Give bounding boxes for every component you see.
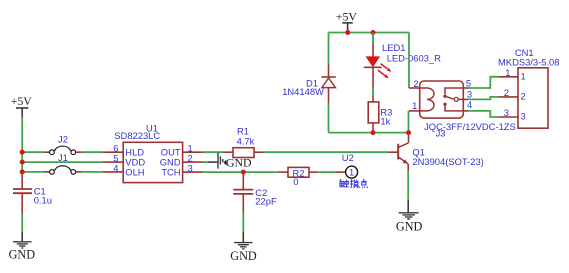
svg-text:0: 0	[293, 176, 298, 187]
node: R3 bottom junction	[371, 130, 376, 135]
svg-text:0.1u: 0.1u	[34, 194, 52, 205]
svg-text:4: 4	[113, 162, 118, 173]
IC U1 SD8223LC	[113, 122, 192, 182]
wire: R2 to U2	[309, 171, 318, 173]
svg-text:1: 1	[505, 67, 510, 78]
relay switch	[445, 88, 463, 94]
LED LED1	[364, 33, 392, 88]
svg-text:22pF: 22pF	[255, 195, 277, 206]
wire: LED to R3	[372, 88, 374, 95]
svg-text:GND: GND	[230, 249, 257, 263]
wire: top rail	[329, 32, 410, 34]
wire: bottom loop horizontal	[329, 132, 409, 134]
svg-text:4.7k: 4.7k	[237, 135, 255, 146]
svg-text:+5V: +5V	[11, 94, 33, 108]
svg-text:GND: GND	[9, 248, 36, 262]
svg-text:J2: J2	[58, 133, 68, 144]
label 触摸点 (hand drawn glyphs)	[340, 179, 368, 188]
svg-text:3: 3	[467, 89, 472, 100]
wire: R1 to Q1 base	[254, 151, 263, 153]
svg-text:J3: J3	[436, 128, 446, 139]
resistor R1	[233, 148, 254, 158]
svg-text:3: 3	[504, 107, 509, 118]
svg-text:2: 2	[413, 78, 418, 89]
node: LED branch junction	[371, 30, 376, 35]
svg-text:SD8223LC: SD8223LC	[114, 130, 160, 141]
svg-text:2N3904(SOT-23): 2N3904(SOT-23)	[412, 156, 483, 167]
svg-text:J1: J1	[58, 152, 68, 163]
wire: +5V rail vertical left	[21, 117, 23, 172]
wire: top rail down to relay pin2	[408, 33, 410, 89]
wire: U1 pin1 OUT to R1	[183, 151, 203, 153]
svg-text:1N4148W: 1N4148W	[282, 86, 324, 97]
node: rail junction dots	[20, 150, 25, 155]
wire: emitter to ground	[407, 171, 409, 200]
node: TCH junction	[241, 170, 246, 175]
power +5V top	[336, 10, 358, 33]
svg-text:GND: GND	[396, 220, 423, 234]
connector CN1	[499, 67, 549, 128]
capacitor C1	[13, 172, 32, 214]
svg-text:1: 1	[412, 100, 417, 111]
wire: HLD row to J2	[22, 151, 44, 153]
wire: U1 pin3 TCH	[183, 171, 203, 173]
svg-text:5: 5	[466, 78, 471, 89]
svg-text:TCH: TCH	[161, 167, 180, 178]
node: collector junction	[406, 130, 411, 135]
jumper J2	[50, 146, 76, 155]
wire: relay pin1 to loop	[409, 110, 420, 112]
wire: relay pin5 to CN1 pin1	[463, 87, 468, 89]
svg-text:1: 1	[521, 71, 526, 82]
wire: U1 pin2 to GND	[183, 161, 203, 163]
wire: J1 to U1 pin4	[76, 171, 82, 173]
svg-text:4: 4	[467, 99, 472, 110]
capacitor C2	[233, 172, 253, 213]
testpoint U2	[346, 166, 358, 178]
svg-text:MKDS3/3-5.08: MKDS3/3-5.08	[498, 57, 560, 68]
svg-text:2: 2	[521, 91, 526, 102]
svg-text:LED-0603_R: LED-0603_R	[387, 53, 441, 64]
ground GND at U1 pin2 (sideways)	[218, 153, 252, 170]
wire: relay pin4 to CN1 pin3	[463, 110, 468, 112]
relay coil	[420, 88, 434, 111]
svg-text:U2: U2	[342, 152, 354, 163]
ground GND left	[9, 232, 36, 262]
ground GND at Q1	[396, 201, 423, 234]
power +5V left	[11, 94, 33, 117]
resistor R3	[368, 95, 379, 133]
relay J3	[412, 78, 472, 118]
svg-text:1k: 1k	[380, 116, 390, 127]
diode D1	[321, 65, 335, 104]
svg-text:+5V: +5V	[336, 10, 358, 24]
wire: left loop vertical (D1 branch)	[328, 33, 330, 65]
svg-text:1: 1	[349, 167, 354, 178]
jumper J1	[50, 166, 76, 174]
svg-text:GND: GND	[226, 155, 252, 169]
wire: VDD row straight	[22, 161, 102, 163]
svg-text:OLH: OLH	[125, 167, 144, 178]
ground GND at C2	[230, 232, 257, 263]
node: +5V junction	[345, 30, 350, 35]
wire: C2 to ground	[242, 213, 244, 232]
wire: J2 to U1 pin6	[76, 151, 82, 153]
wire: C1 to ground	[21, 214, 23, 232]
svg-text:2: 2	[504, 87, 509, 98]
svg-text:3: 3	[521, 111, 526, 122]
transistor Q1	[389, 133, 409, 172]
wire: relay pin3 to CN1 pin2	[463, 98, 468, 100]
wire: OLH row to J1 jumper	[22, 171, 44, 173]
resistor R2	[288, 167, 309, 178]
